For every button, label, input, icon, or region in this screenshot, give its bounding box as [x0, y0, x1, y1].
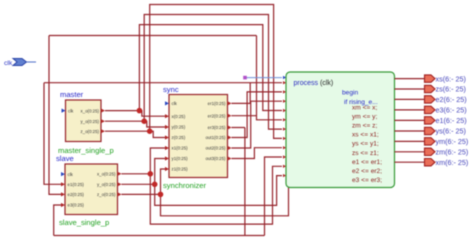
wire net x1: slave x_o to sync x1 and process p10	[122, 148, 283, 224]
wire net y: master y_o to sync y and process (top loop 2)	[105, 15, 282, 130]
output port zm	[395, 151, 425, 153]
svg-text:e2 <= er2;: e2 <= er2;	[352, 168, 382, 175]
svg-text:er2(0:25): er2(0:25)	[208, 113, 226, 118]
svg-text:process (clk): process (clk)	[294, 80, 334, 87]
svg-text:y1(0:25): y1(0:25)	[172, 156, 189, 161]
svg-text:e2(0:25): e2(0:25)	[68, 192, 85, 197]
svg-text:out1(0:25): out1(0:25)	[205, 135, 226, 140]
sync pin z	[165, 135, 169, 139]
svg-text:x(0:25): x(0:25)	[172, 114, 186, 119]
wire net er2: sync er2 to slave e2 (top loop 4) and process p5	[49, 36, 282, 195]
sync pin clk	[165, 101, 169, 105]
clk junction (purple)	[243, 76, 247, 80]
svg-text:ym <= y;: ym <= y;	[352, 114, 377, 121]
process pin clk (blue)	[283, 76, 286, 79]
svg-text:begin: begin	[342, 90, 358, 97]
wire net out3: sync out3 to process p8	[232, 148, 283, 159]
output port ys	[395, 130, 425, 132]
svg-text:xm(6:- 25): xm(6:- 25)	[436, 158, 469, 167]
output port e1	[395, 119, 425, 121]
svg-text:synchronizer: synchronizer	[163, 181, 207, 190]
svg-text:out2(0:25): out2(0:25)	[205, 146, 226, 151]
svg-text:zs <= z1;: zs <= z1;	[352, 150, 379, 157]
output port ym	[395, 140, 425, 142]
process input pin y	[283, 127, 286, 130]
junction dot net z	[147, 128, 153, 134]
svg-text:ys(6:- 25): ys(6:- 25)	[436, 127, 466, 136]
output port e3	[395, 109, 425, 111]
process input pin out2	[283, 100, 286, 103]
svg-text:ym(6:- 25): ym(6:- 25)	[436, 137, 469, 146]
svg-text:er3(0:25): er3(0:25)	[208, 125, 226, 130]
slave pin e1	[61, 182, 65, 186]
output port e2	[395, 98, 425, 100]
sync pin y	[165, 125, 169, 129]
output port xs	[395, 78, 425, 80]
sync pin y1	[165, 156, 169, 160]
process input pin er2	[283, 118, 286, 121]
sync pin x1	[165, 146, 169, 150]
process P1	[283, 72, 395, 188]
wire net clk into process	[245, 77, 282, 79]
svg-text:x_o(0:25): x_o(0:25)	[97, 172, 116, 177]
svg-text:clk: clk	[4, 60, 13, 67]
junction dot net y1	[152, 182, 158, 188]
wire net z1: slave z_o to sync z1 and process bottom	[122, 169, 289, 216]
svg-text:master: master	[60, 90, 84, 99]
process input pin er1	[283, 81, 286, 84]
svg-text:e2(6:- 25): e2(6:- 25)	[436, 95, 467, 104]
process input pin x1	[283, 165, 286, 168]
junction dot net x1	[148, 171, 154, 177]
process input pin out3	[283, 146, 286, 149]
wire net out2: sync out2 to process p3	[232, 101, 283, 148]
junction dot net z1	[158, 192, 164, 198]
svg-text:e3(6:- 25): e3(6:- 25)	[436, 106, 467, 115]
svg-text:e1(0:25): e1(0:25)	[68, 182, 85, 187]
svg-text:z1(0:25): z1(0:25)	[172, 167, 189, 172]
svg-text:out3(0:25): out3(0:25)	[205, 156, 226, 161]
process input pin z	[283, 137, 286, 140]
svg-text:y(0:25): y(0:25)	[172, 125, 186, 130]
wire net z: master z_o to sync z and process (top loop 1)	[105, 5, 282, 139]
svg-text:x_o(0:25): x_o(0:25)	[80, 108, 99, 113]
svg-text:sync: sync	[163, 85, 179, 94]
svg-text:e3(0:25): e3(0:25)	[68, 203, 85, 208]
svg-text:y_o(0:25): y_o(0:25)	[97, 182, 116, 187]
process input pin y1	[283, 174, 286, 177]
svg-text:z(0:25): z(0:25)	[172, 135, 186, 140]
output port zs	[395, 88, 425, 90]
svg-text:y_o(0:25): y_o(0:25)	[80, 119, 99, 124]
wire net er3: sync er3 to slave e3 (bottom loop) and process p9	[54, 128, 282, 236]
wire net x: master x_o to sync x and process (top loop 3)	[105, 25, 282, 117]
svg-text:xs <= x1;: xs <= x1;	[352, 132, 379, 139]
sync U1	[163, 85, 232, 190]
svg-text:ys <= y1;: ys <= y1;	[352, 141, 379, 148]
sync pin x	[165, 114, 169, 118]
wire net er1: sync er1 to slave e1 and process p1	[44, 83, 282, 185]
svg-text:clk: clk	[68, 108, 74, 113]
process input pin er3	[283, 155, 286, 158]
wire net y1: slave y_o to sync y1 and process p11	[122, 159, 283, 206]
svg-text:zm <= z;: zm <= z;	[352, 123, 377, 130]
svg-text:x1(0:25): x1(0:25)	[172, 146, 189, 151]
svg-text:xm <= x;: xm <= x;	[352, 105, 377, 112]
slave pin e2	[61, 192, 65, 196]
svg-text:xs(6:- 25): xs(6:- 25)	[436, 74, 466, 83]
svg-text:e3 <= er3;: e3 <= er3;	[352, 177, 382, 184]
junction dot net x	[137, 108, 143, 114]
svg-text:er1(0:25): er1(0:25)	[208, 101, 226, 106]
svg-text:z_o(0:25): z_o(0:25)	[97, 192, 116, 197]
slave S1	[56, 154, 122, 227]
svg-text:zs(6:- 25): zs(6:- 25)	[436, 85, 466, 94]
svg-text:e1 <= er1;: e1 <= er1;	[352, 159, 382, 166]
master pin clk	[62, 109, 66, 113]
slave pin e3	[61, 203, 65, 207]
slave pin clk	[61, 172, 65, 176]
wire net out1: sync out1 to process p2	[232, 92, 283, 138]
svg-text:e1(6:- 25): e1(6:- 25)	[436, 116, 467, 125]
process input pin x	[283, 109, 286, 112]
svg-text:z_o(0:25): z_o(0:25)	[80, 129, 99, 134]
process input pin out1	[283, 90, 286, 93]
ports	[4, 59, 468, 167]
svg-text:clk: clk	[172, 101, 178, 106]
svg-text:slave: slave	[56, 154, 74, 163]
sync pin z1	[165, 167, 169, 171]
svg-text:clk: clk	[68, 172, 74, 177]
svg-text:slave_single_p: slave_single_p	[59, 218, 109, 227]
output port xm	[395, 161, 425, 163]
master M1	[58, 90, 114, 155]
junction dot net y	[141, 118, 147, 124]
svg-text:zm(6:- 25): zm(6:- 25)	[436, 148, 469, 157]
